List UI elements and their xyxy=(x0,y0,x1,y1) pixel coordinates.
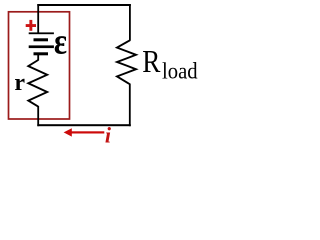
svg-text:ε: ε xyxy=(54,22,67,62)
battery B1 plate short - xyxy=(34,38,49,41)
resistor Rload zigzag xyxy=(117,40,136,84)
svg-text:r: r xyxy=(14,70,25,96)
current arrow head xyxy=(64,128,72,136)
current arrow shaft xyxy=(69,131,104,133)
wire bottom xyxy=(37,124,131,126)
wire top xyxy=(37,4,131,6)
battery B1 plate long + xyxy=(29,32,54,34)
svg-text:load: load xyxy=(162,57,198,84)
battery internal box xyxy=(9,12,70,119)
wire right-bottom xyxy=(129,84,131,127)
battery B1 plate short2 xyxy=(34,52,49,55)
svg-text:R: R xyxy=(142,45,160,79)
svg-text:i: i xyxy=(105,123,112,148)
resistor r zigzag xyxy=(28,60,47,107)
wire left-top xyxy=(37,4,39,34)
wire left-bottom xyxy=(37,106,39,126)
wire right-top xyxy=(129,4,131,41)
battery B1 plate long2 xyxy=(29,45,54,48)
plus terminal mark xyxy=(26,20,36,31)
wire battery to r xyxy=(37,55,39,61)
